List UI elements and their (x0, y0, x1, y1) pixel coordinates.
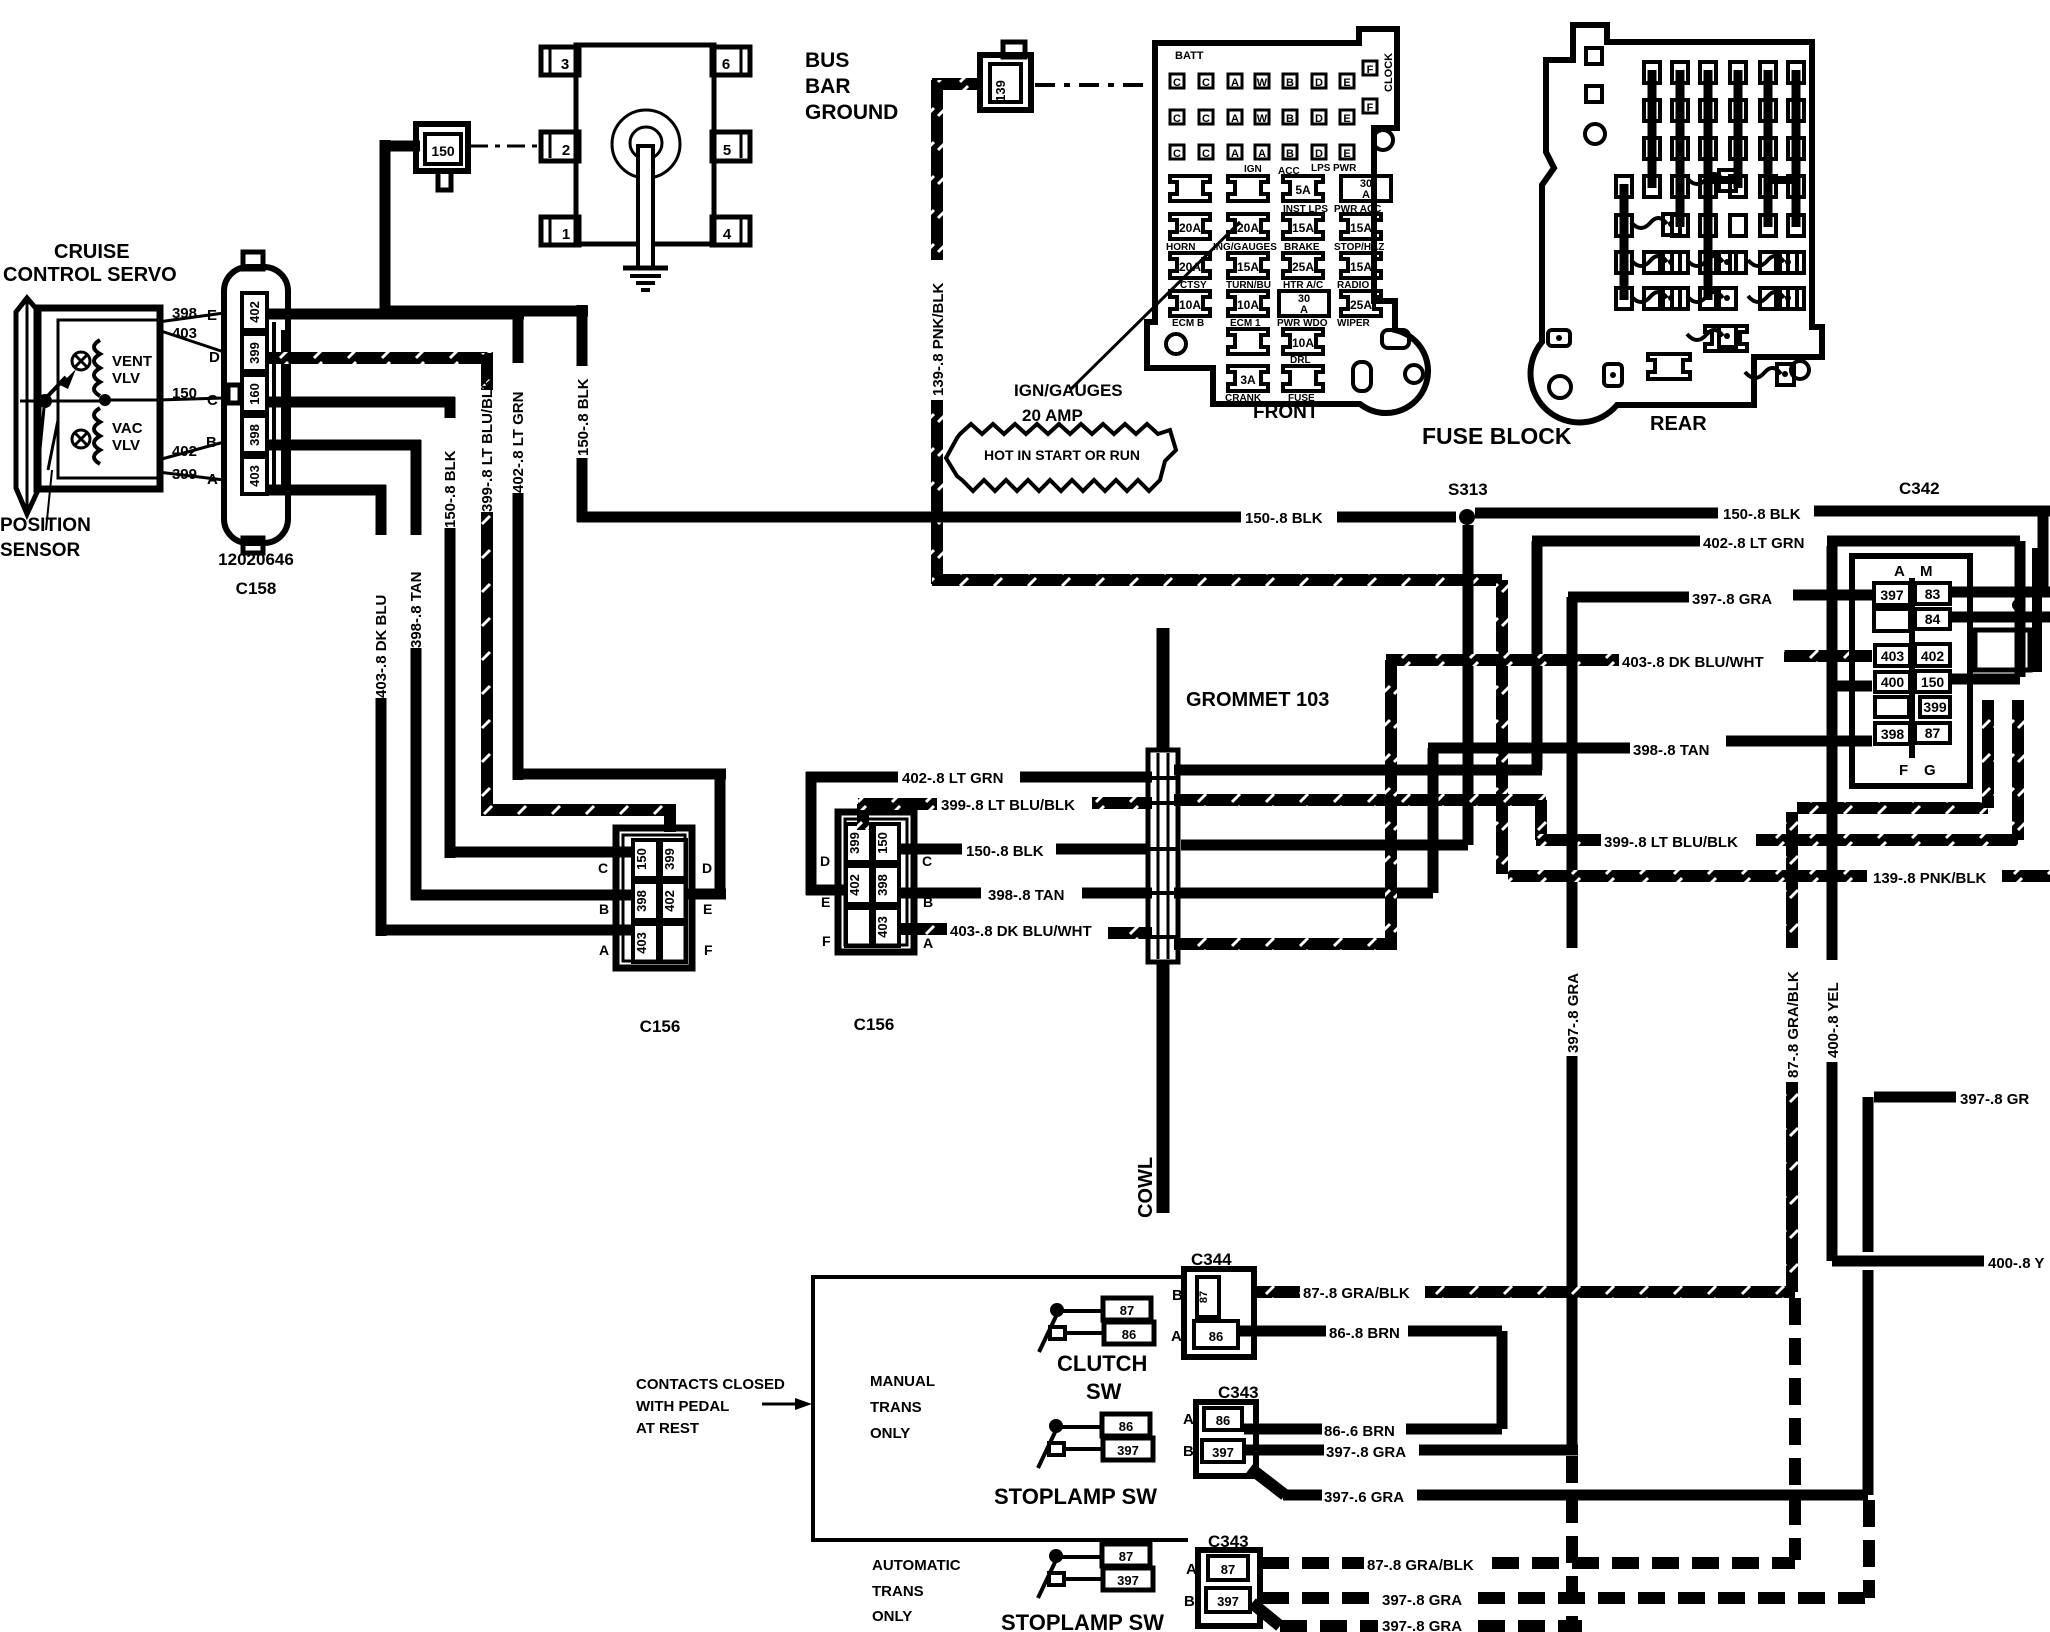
svg-text:397-.8 GRA: 397-.8 GRA (1565, 973, 1582, 1053)
connector C342 center bar (1909, 578, 1915, 758)
manual trans box (813, 1277, 1188, 1540)
fuse row E col2 blank (1228, 329, 1268, 354)
fuse block letter box D row3 col6 (1312, 145, 1326, 159)
wire 399 hatched to grommet (1092, 797, 1152, 809)
fuse block letter box F row2 (1363, 99, 1377, 113)
C158 pin C 160 (242, 375, 267, 412)
fuse block letter box C row2 col1 (1170, 110, 1184, 124)
connector 139 (980, 55, 1031, 110)
wire 397 bracket dashed lower (1863, 1500, 1875, 1598)
svg-text:MANUAL: MANUAL (870, 1373, 935, 1390)
wire 397 GRA dashed stub right (1478, 1620, 1582, 1632)
bus bar terminal 1 (541, 217, 579, 245)
fuse 30A PWR WDO (1279, 291, 1329, 316)
svg-text:C: C (1173, 113, 1181, 125)
svg-text:397-.8 GRA: 397-.8 GRA (1382, 1618, 1462, 1632)
rear block squiggle terminal 8 (1748, 292, 1784, 302)
wire 398 TAN row (901, 888, 981, 899)
svg-text:86: 86 (1216, 1413, 1230, 1428)
wire 400 YEL vertical upper (1827, 546, 1838, 686)
bus bar terminal 5 (712, 132, 750, 161)
fuse block letter box D row2 col6 (1312, 110, 1326, 124)
C342 pin 83 (1915, 583, 1950, 604)
svg-text:87-.8 GRA/BLK: 87-.8 GRA/BLK (1303, 1285, 1410, 1302)
svg-text:400-.8 YEL: 400-.8 YEL (1825, 982, 1842, 1058)
wire 397 GRA dashed right (1478, 1592, 1869, 1604)
fuse block letter box C row1 col1 (1170, 74, 1184, 88)
svg-text:87: 87 (1198, 1291, 1210, 1303)
fuse row A col2 blank (1228, 176, 1268, 201)
svg-text:397: 397 (1212, 1445, 1234, 1460)
wire 397 GRA row 2 (1283, 1490, 1322, 1501)
svg-text:C158: C158 (236, 579, 277, 598)
svg-text:C: C (1173, 77, 1181, 89)
svg-text:398-.8 TAN: 398-.8 TAN (1633, 742, 1709, 759)
rear block squiggle terminal 5 (1748, 256, 1784, 266)
svg-text:C: C (1202, 148, 1210, 160)
fuse 20A CTSY (1170, 253, 1210, 278)
connector C343 manual outline (1196, 1402, 1256, 1476)
wire 397 GRA vertical lower (1567, 1056, 1578, 1450)
svg-text:403: 403 (172, 325, 197, 342)
svg-text:REAR: REAR (1650, 413, 1707, 435)
C342 pin 87 (1915, 723, 1950, 743)
svg-text:B: B (206, 434, 217, 451)
svg-text:400-.8 Y: 400-.8 Y (1988, 1255, 2044, 1272)
svg-text:150-.8 BLK: 150-.8 BLK (966, 843, 1044, 860)
svg-text:A: A (1894, 563, 1905, 580)
svg-text:402: 402 (247, 301, 262, 323)
fuse block rear square hole 2 (1586, 86, 1602, 102)
C342 right side wires 83 84 (1952, 587, 2050, 598)
wire 87 GRA/BLK hatched to vertical (1425, 1286, 1795, 1298)
fuse 10A DRL (1283, 329, 1323, 354)
fuse IGN blank (1170, 176, 1210, 201)
wire 399 hatched to C342 (1756, 834, 2018, 846)
rear block squiggle terminal 10 (1745, 368, 1781, 378)
wire 397 GRA dashed row (1262, 1592, 1378, 1604)
svg-text:WITH PEDAL: WITH PEDAL (636, 1398, 729, 1415)
fuse block front foot hole (1166, 334, 1186, 354)
fuse 20A HORN (1170, 214, 1210, 239)
fuse 15A TURN/BU (1228, 253, 1268, 278)
wire 87 GRA/BLK hatched at C342 (1797, 802, 1988, 814)
grommet 103 body (1148, 750, 1178, 962)
rear block bus bar column 1 (1620, 184, 1629, 300)
C342 pin 84 (1915, 609, 1950, 629)
fuse block front oval slot (1353, 362, 1371, 391)
fuse block rear square hole 1 (1586, 48, 1602, 64)
vac valve symbol (72, 430, 90, 448)
svg-text:139-.8 PNK/BLK: 139-.8 PNK/BLK (1873, 870, 1987, 887)
C344 pin B 87 (1197, 1277, 1219, 1317)
rear block small pad 2 (1548, 330, 1570, 346)
svg-text:397-.8 GRA: 397-.8 GRA (1692, 591, 1772, 608)
svg-text:399: 399 (662, 848, 677, 870)
fuse 3A CRANK (1228, 366, 1268, 391)
svg-text:CRUISE: CRUISE (54, 241, 130, 263)
rear block crossbar 1 (1708, 176, 1738, 184)
wire 139 PNK/BLK row right (1508, 870, 1867, 882)
vac valve coil (94, 408, 100, 464)
wire 402 right of grommet (1174, 765, 1542, 776)
fuse 30A PWR ACC (1341, 176, 1391, 201)
wire 150 BLK left of grommet (901, 844, 962, 855)
rear block squiggle terminal 3 (1631, 256, 1667, 266)
svg-text:397: 397 (1117, 1443, 1139, 1458)
svg-text:B: B (1183, 1443, 1194, 1460)
fuse block front lobe slot (1382, 330, 1409, 348)
svg-text:402-.8 LT GRN: 402-.8 LT GRN (510, 392, 527, 493)
ground symbol (623, 266, 668, 271)
svg-text:402: 402 (662, 890, 677, 912)
svg-text:CLOCK: CLOCK (1383, 53, 1395, 92)
wire 87 GRA/BLK hatched vertical lower (1786, 1082, 1798, 1292)
svg-text:D: D (1315, 113, 1323, 125)
svg-text:VENT: VENT (112, 353, 152, 370)
C342 pin blank row2 (1874, 609, 1910, 631)
svg-text:SENSOR: SENSOR (0, 540, 81, 561)
wire 403 hatched row (901, 923, 947, 935)
svg-text:PWR: PWR (1333, 163, 1357, 174)
svg-text:AUTOMATIC: AUTOMATIC (872, 1557, 961, 1574)
svg-text:398-.8 TAN: 398-.8 TAN (408, 572, 425, 648)
svg-text:399-.8 LT BLU/BLK: 399-.8 LT BLU/BLK (1604, 834, 1738, 851)
svg-text:10A: 10A (1179, 298, 1201, 312)
svg-text:160: 160 (247, 383, 262, 405)
svg-text:86-.6 BRN: 86-.6 BRN (1324, 1423, 1395, 1440)
wire 402 upper row right segment (1827, 536, 2020, 547)
wire 86 BRN loop (1408, 1326, 1502, 1337)
bus bar center post outer circle (612, 110, 680, 178)
rear block squiggle terminal 4 (1687, 256, 1723, 266)
wire 87 GRA/BLK hatched vertical upper (1786, 812, 1798, 948)
wire 150 lower segment (445, 528, 456, 858)
connector C156 left (616, 828, 692, 968)
fuse block letter box A row1 col3 (1228, 74, 1242, 88)
svg-text:COWL: COWL (1135, 1157, 1157, 1218)
fuse block letter box A row2 col3 (1228, 110, 1242, 124)
wire 399 right of grommet hatched (1174, 794, 1546, 806)
wire 398 TAN to C342 pin (1726, 736, 1872, 747)
svg-text:398: 398 (1881, 726, 1905, 742)
wire 150 BLK lower (577, 458, 588, 522)
svg-text:403: 403 (247, 465, 262, 487)
rear block bus bar column 5 (1734, 70, 1743, 188)
svg-text:397: 397 (1117, 1573, 1139, 1588)
svg-text:STOPLAMP SW: STOPLAMP SW (994, 1484, 1157, 1509)
callout line IGN/GAUGES to fuse (1070, 222, 1240, 390)
svg-text:397-.6 GRA: 397-.6 GRA (1324, 1489, 1404, 1506)
svg-text:402: 402 (847, 874, 862, 896)
svg-text:139-.8 PNK/BLK: 139-.8 PNK/BLK (930, 282, 947, 396)
connector C158 inner lines (272, 322, 276, 495)
C342 pin 150 (1915, 671, 1950, 692)
svg-text:397: 397 (1880, 587, 1904, 603)
C342 pin 399 (1920, 697, 1950, 717)
dash-dot link 139 to fuse block (1035, 83, 1155, 87)
svg-text:399-.8 LT BLU/BLK: 399-.8 LT BLU/BLK (941, 797, 1075, 814)
fuse 15A STOP/HAZ (1341, 214, 1381, 239)
C342 pin 402 (1915, 644, 1950, 666)
svg-text:D: D (820, 853, 830, 869)
C344 pin A 86 (1194, 1321, 1238, 1348)
wire 139 PNK/BLK hatched from connector down (932, 78, 982, 90)
svg-text:87-.8 GRA/BLK: 87-.8 GRA/BLK (1367, 1557, 1474, 1574)
svg-text:398: 398 (634, 890, 649, 912)
wire 398 lower segment (411, 648, 422, 900)
svg-text:C: C (1173, 148, 1181, 160)
svg-text:87: 87 (1925, 725, 1941, 741)
svg-text:403: 403 (875, 916, 890, 938)
fuse block letter box D row1 col6 (1312, 74, 1326, 88)
wire 150 from C158 pin C (267, 397, 455, 408)
C342 right appendage (1975, 630, 2030, 670)
fuse block front outline (1147, 29, 1428, 413)
svg-text:G: G (1924, 762, 1936, 779)
svg-text:25A: 25A (1292, 260, 1314, 274)
wire 150 BLK mid segment (1337, 512, 1456, 523)
svg-text:TRANS: TRANS (870, 1399, 922, 1416)
wire 87 GRA/BLK dashed vertical (1789, 1298, 1801, 1560)
wire 397 GRA row 2 stub (1250, 1468, 1285, 1495)
svg-text:E: E (703, 901, 712, 917)
C342 pin 400 (1875, 672, 1910, 692)
connector 150 (416, 124, 468, 171)
svg-text:10A: 10A (1292, 336, 1314, 350)
svg-text:150: 150 (875, 832, 890, 854)
svg-text:402-.8 LT GRN: 402-.8 LT GRN (1703, 535, 1804, 552)
fuse block letter box C row1 col2 (1199, 74, 1213, 88)
svg-text:150: 150 (1921, 674, 1945, 690)
svg-text:B: B (1172, 1287, 1183, 1304)
svg-text:399: 399 (1923, 699, 1947, 715)
wire 397 GRA to C342 pin (1793, 590, 1872, 601)
fuse block rear outline (1531, 25, 1822, 422)
C343 auto pin B 397 (1206, 1588, 1250, 1612)
servo pin wire E (158, 313, 224, 322)
wire S313 branch down (1463, 525, 1474, 845)
svg-text:400: 400 (1881, 674, 1905, 690)
fuse block rear hole bottom right (1791, 361, 1809, 379)
svg-text:86: 86 (1122, 1327, 1136, 1342)
HOT IN START OR RUN burst (946, 424, 1176, 491)
svg-text:A: A (1231, 148, 1239, 160)
svg-text:3A: 3A (1240, 373, 1256, 387)
svg-text:402-.8 LT GRN: 402-.8 LT GRN (902, 770, 1003, 787)
wire 398 TAN right row (1428, 743, 1630, 754)
wire 399 hatched riser right C156 (857, 804, 869, 830)
servo pin wire D (158, 330, 224, 352)
svg-text:D: D (1315, 77, 1323, 89)
C342 pin 397 (1874, 583, 1910, 605)
vent valve symbol (72, 352, 90, 370)
connector C344 outline (1184, 1269, 1254, 1357)
fuse block letter box W row1 col4 (1255, 74, 1269, 88)
wire 402 LT GRN row left of grommet (806, 772, 817, 895)
rear block small pad 1 (1604, 364, 1622, 386)
wire 397 GRA row1 to vertical (1419, 1445, 1578, 1456)
C342 pin 398 (1875, 723, 1910, 744)
fuse 15A RADIO (1341, 253, 1381, 278)
wire 397 bracket top row (1874, 1092, 1956, 1103)
C342 pin blank row5 (1875, 697, 1909, 717)
position sensor wiper (20, 400, 105, 403)
svg-text:397-.8 GRA: 397-.8 GRA (1326, 1444, 1406, 1461)
C342 right side dot (2012, 599, 2024, 611)
svg-text:25A: 25A (1350, 298, 1372, 312)
C158 keyway (228, 385, 240, 403)
wire 402 from C158 pin E (267, 309, 524, 320)
clutch switch (1050, 1303, 1064, 1317)
bus bar ground body (576, 45, 714, 244)
svg-text:ECM B: ECM B (1172, 318, 1204, 329)
svg-text:F: F (1367, 102, 1374, 114)
grommet wire stub below / cowl line (1157, 962, 1170, 1213)
connector C156 right (838, 812, 914, 952)
rear block bus bar column 7 (1792, 70, 1801, 227)
rear block squiggle terminal 2 (1687, 174, 1723, 184)
stoplamp switch auto (1049, 1549, 1063, 1563)
svg-text:399-.8 LT BLU/BLK: 399-.8 LT BLU/BLK (479, 378, 496, 512)
rear block fuse bottom 2 (1648, 354, 1690, 379)
wire 403 lower segment (376, 698, 387, 936)
wire 403 from C158 pin A (267, 485, 386, 496)
wire 397 GRA dashed continuation (1566, 1456, 1578, 1626)
svg-text:FRONT: FRONT (1253, 402, 1319, 423)
svg-text:398-.8 TAN: 398-.8 TAN (988, 887, 1064, 904)
svg-text:D: D (1315, 148, 1323, 160)
wire 400 YEL bottom row (1832, 1256, 1984, 1267)
wire 150 BLK right segment to C342 (1475, 508, 1718, 519)
svg-text:FUSE BLOCK: FUSE BLOCK (1422, 423, 1572, 449)
svg-text:VLV: VLV (112, 437, 140, 454)
wire 87 GRA/BLK dashed row (1262, 1557, 1364, 1569)
grommet wire stub above (1157, 628, 1170, 750)
C342 pin 403 (1875, 645, 1910, 666)
svg-text:BATT: BATT (1175, 50, 1204, 62)
wire 397 GRA row (1568, 592, 1689, 603)
svg-text:15A: 15A (1237, 260, 1259, 274)
wire 398 from C158 pin B (267, 440, 421, 451)
svg-text:15A: 15A (1292, 221, 1314, 235)
svg-text:E: E (207, 307, 217, 324)
svg-text:A: A (923, 935, 933, 951)
wire 139 PNK/BLK to right edge (2002, 870, 2050, 882)
svg-text:HOT IN START OR RUN: HOT IN START OR RUN (984, 447, 1140, 463)
fuse block letter box C row2 col2 (1199, 110, 1213, 124)
bus bar center post inner circle (630, 127, 662, 159)
wire 397 GRA vertical upper (1567, 597, 1578, 948)
servo pin wire C (158, 398, 224, 400)
rear block crossbar 2 (1768, 176, 1796, 184)
wire 398 TAN to grommet (1082, 888, 1152, 899)
svg-text:399: 399 (847, 832, 862, 854)
svg-text:B: B (1286, 148, 1294, 160)
fuse 10A ECM B (1170, 291, 1210, 316)
svg-text:A: A (1362, 189, 1370, 201)
svg-text:84: 84 (1925, 611, 1941, 627)
fuse block letter box B row2 col5 (1283, 110, 1297, 124)
servo center tap 150 (99, 394, 111, 406)
svg-text:C: C (207, 392, 218, 409)
wire 87 GRA/BLK hatched C344 row (1256, 1286, 1300, 1298)
svg-text:403: 403 (634, 932, 649, 954)
wire 150 BLK to right edge (1814, 506, 2050, 517)
fuse block rear hole top (1585, 124, 1605, 144)
C343 manual pin B 397 (1202, 1440, 1244, 1462)
svg-text:C342: C342 (1899, 479, 1940, 498)
svg-text:397-.8 GRA: 397-.8 GRA (1382, 1592, 1462, 1609)
svg-text:86-.8 BRN: 86-.8 BRN (1329, 1325, 1400, 1342)
fuse block letter box C row3 col1 (1170, 145, 1184, 159)
wire 150 BLK long horizontal left segment (577, 512, 1241, 523)
svg-text:150-.8 BLK: 150-.8 BLK (442, 450, 459, 528)
svg-text:150-.8 BLK: 150-.8 BLK (1723, 506, 1801, 523)
svg-text:403-.8 DK BLU/WHT: 403-.8 DK BLU/WHT (1622, 654, 1764, 671)
cruise control servo body (37, 308, 160, 489)
svg-text:150: 150 (172, 385, 197, 402)
svg-text:F: F (822, 933, 831, 949)
wire 403 hatched to grommet (1108, 927, 1152, 939)
wire 400 YEL vertical lower (1827, 1062, 1838, 1261)
bus bar stem (638, 146, 653, 268)
svg-text:GROUND: GROUND (805, 101, 898, 124)
svg-text:87-.8 GRA/BLK: 87-.8 GRA/BLK (1785, 971, 1802, 1078)
C158 pin E 402 (242, 293, 267, 330)
svg-text:B: B (599, 901, 609, 917)
svg-text:ONLY: ONLY (870, 1425, 910, 1442)
wire 150 BLK from connector 150 to ground bus (385, 141, 420, 152)
svg-text:12020646: 12020646 (218, 550, 294, 569)
cruise control servo diaphragm (16, 298, 39, 514)
wire 397 GRA row2 to bracket (1417, 1490, 1868, 1501)
svg-text:B: B (1286, 113, 1294, 125)
svg-text:F: F (704, 942, 713, 958)
svg-text:C156: C156 (640, 1017, 681, 1036)
svg-text:LPS: LPS (1311, 163, 1331, 174)
wire 399 lower right row hatched (1536, 834, 1601, 846)
wire 403 hatched to C342 pin (1784, 650, 1872, 662)
svg-text:SW: SW (1086, 1379, 1122, 1404)
svg-text:3: 3 (561, 56, 569, 73)
svg-text:20 AMP: 20 AMP (1022, 406, 1083, 425)
svg-text:F: F (1367, 64, 1374, 76)
wire 403 right row hatched (1386, 654, 1619, 666)
svg-text:E: E (1343, 113, 1350, 125)
servo pin wire B (158, 442, 224, 460)
svg-text:150-.8 BLK: 150-.8 BLK (1245, 510, 1323, 527)
svg-text:139: 139 (993, 80, 1008, 102)
svg-text:403: 403 (1881, 648, 1905, 664)
wire 402 upper row left segment (1532, 536, 1700, 547)
C158 pin D 399 (242, 334, 267, 371)
svg-text:A: A (1231, 113, 1239, 125)
svg-text:150: 150 (634, 848, 649, 870)
svg-text:87: 87 (1221, 1562, 1235, 1577)
connector C158 bottom tab (243, 538, 263, 553)
svg-text:B: B (1184, 1593, 1195, 1610)
svg-text:403-.8 DK BLU/WHT: 403-.8 DK BLU/WHT (950, 923, 1092, 940)
svg-text:C: C (1202, 113, 1210, 125)
svg-text:5A: 5A (1295, 183, 1311, 197)
svg-text:A: A (1171, 1328, 1182, 1345)
dash-dot link connector 150 to bus bar terminal 2 (470, 145, 544, 148)
svg-text:A: A (207, 471, 218, 488)
svg-text:397-.8 GR: 397-.8 GR (1960, 1091, 2029, 1108)
wire 86 BRN row 1 (1240, 1326, 1326, 1337)
wire 402 LT GRN to grommet (1020, 772, 1152, 783)
